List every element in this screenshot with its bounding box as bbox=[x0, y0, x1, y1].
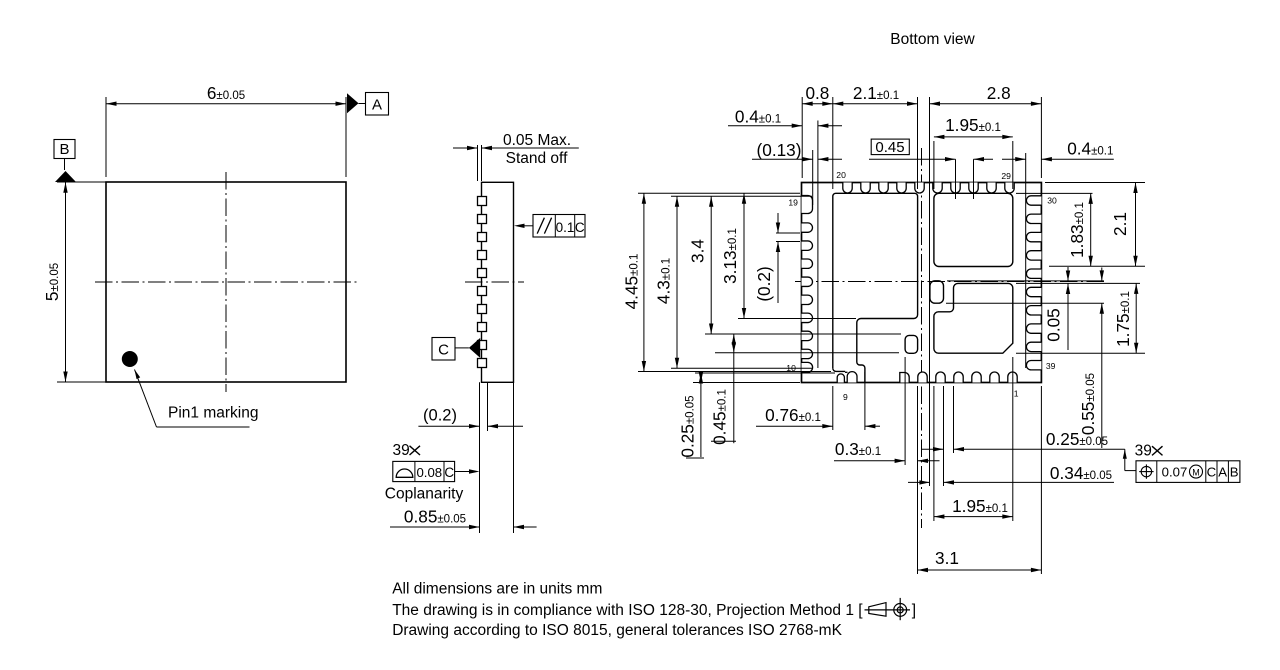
dimension 6±0.05 top view width bbox=[105, 97, 107, 177]
svg-text:29: 29 bbox=[1001, 171, 1011, 181]
dimension (0.2) lead width bbox=[776, 232, 800, 234]
dimension 2.1 right bbox=[1135, 183, 1137, 267]
right pin column pins 30-39 bbox=[1026, 196, 1041, 205]
dimension 3.1 bbox=[1040, 386, 1042, 574]
svg-text:39: 39 bbox=[1046, 361, 1056, 371]
small pad lower center bbox=[905, 335, 918, 353]
bottom pin row pins 7-1 bbox=[918, 372, 927, 382]
svg-text:3.4: 3.4 bbox=[687, 239, 707, 263]
svg-text:Stand off: Stand off bbox=[506, 150, 568, 167]
svg-text:0.1: 0.1 bbox=[556, 220, 575, 235]
top right exposed pad bbox=[934, 193, 1013, 266]
svg-text:0.05: 0.05 bbox=[1043, 308, 1063, 341]
pin1 marking leader and label bbox=[135, 370, 141, 380]
dimension 0.4±0.1 left pin length bbox=[728, 125, 802, 127]
dimension 0.76±0.1 bbox=[832, 386, 834, 430]
dimension 3.4 bbox=[705, 333, 901, 335]
bottom view package outline bbox=[802, 183, 1042, 383]
svg-text:2.8: 2.8 bbox=[987, 83, 1011, 103]
svg-text:2.1: 2.1 bbox=[1110, 212, 1130, 236]
datum A flag bbox=[347, 93, 359, 113]
side view centerline bbox=[465, 281, 524, 283]
svg-text:0.07: 0.07 bbox=[1162, 465, 1188, 480]
svg-text:The drawing is in compliance w: The drawing is in compliance with ISO 12… bbox=[392, 602, 863, 619]
svg-text:0.45: 0.45 bbox=[875, 139, 904, 156]
top view horizontal centerline bbox=[95, 281, 357, 283]
position tolerance frame 39x 0.07 M C A B bbox=[1123, 449, 1127, 459]
svg-text:39: 39 bbox=[1135, 442, 1152, 459]
dimension 0.3±0.1 bbox=[904, 357, 906, 465]
svg-text:20: 20 bbox=[836, 170, 846, 180]
dimension 3.13±0.1 bbox=[738, 318, 856, 320]
side view leads column bbox=[478, 197, 487, 206]
svg-text:C: C bbox=[438, 341, 449, 358]
svg-text:M: M bbox=[1192, 468, 1200, 478]
dimension 0.8 bbox=[801, 97, 803, 178]
bottom right exposed pad with chamfer bbox=[934, 283, 1013, 353]
dimension 0.4±0.1 right bbox=[1002, 158, 1026, 160]
svg-text:Pin1 marking: Pin1 marking bbox=[168, 405, 258, 422]
side view body outline bbox=[482, 182, 514, 382]
dimension 0.45 pitch boxed bbox=[871, 139, 909, 155]
svg-text:(0.2): (0.2) bbox=[423, 407, 457, 425]
dimension 0.25±0.05 right bbox=[943, 386, 945, 453]
svg-text:0.08: 0.08 bbox=[416, 465, 442, 480]
left pin column pins 19-10 bbox=[802, 196, 813, 214]
bottom view vertical centerline bbox=[921, 148, 923, 528]
dimension 0.25±0.05 left bbox=[695, 372, 835, 374]
svg-text:B: B bbox=[59, 141, 69, 158]
svg-text:3.1: 3.1 bbox=[935, 548, 959, 568]
top view package body outline bbox=[106, 182, 346, 382]
bottom pin 8 small bump bbox=[837, 374, 844, 383]
svg-text:A: A bbox=[1218, 465, 1227, 480]
dimension 4.45±0.1 bbox=[638, 192, 800, 194]
dimension 4.3±0.1 bbox=[671, 195, 812, 197]
parallelism feature control frame //|0.1|C bbox=[533, 215, 585, 238]
svg-text:30: 30 bbox=[1047, 196, 1057, 206]
bottom pin 7 squared corner bbox=[900, 373, 909, 383]
dimension 2.1±0.1 bbox=[917, 97, 919, 189]
svg-text:1: 1 bbox=[1014, 389, 1019, 399]
dimension 0.55±0.05 bbox=[946, 302, 1104, 304]
svg-text:Coplanarity: Coplanarity bbox=[385, 485, 464, 502]
svg-text:B: B bbox=[1230, 465, 1239, 480]
svg-text:0.8: 0.8 bbox=[805, 83, 829, 103]
svg-text:]: ] bbox=[912, 602, 916, 619]
dimension 2.8 bbox=[929, 97, 931, 486]
dimension 1.95±0.1 bottom bbox=[933, 386, 935, 521]
left pin tip line bbox=[817, 121, 819, 369]
dimension 0.05 Max stand off bbox=[477, 145, 479, 181]
small pad near center pin1 side bbox=[930, 281, 944, 303]
dimension 0.34±0.05 bbox=[908, 481, 930, 483]
side view extension lines below body bbox=[479, 382, 481, 533]
svg-text:A: A bbox=[372, 97, 382, 114]
dimension 0.05 bbox=[947, 280, 1104, 282]
svg-text:39: 39 bbox=[393, 442, 410, 459]
svg-text:Drawing according to ISO 8015,: Drawing according to ISO 8015, general t… bbox=[392, 622, 842, 639]
top pin row pins 20-29 bbox=[843, 183, 852, 194]
bottom pin 9 bbox=[847, 372, 857, 383]
svg-text:All dimensions are in units mm: All dimensions are in units mm bbox=[392, 580, 602, 597]
dimension 1.83±0.1 bbox=[1090, 193, 1092, 266]
svg-text:Bottom view: Bottom view bbox=[890, 31, 975, 48]
svg-text:C: C bbox=[444, 465, 454, 480]
dimension 0.45±0.1 left bbox=[715, 352, 899, 354]
bottom view horizontal centerline bbox=[795, 281, 1104, 283]
svg-text:0.05 Max.: 0.05 Max. bbox=[503, 132, 571, 149]
left exposed pad outline bbox=[833, 193, 918, 382]
dimension 5±0.05 top view height bbox=[57, 181, 106, 183]
dimension (0.13) bbox=[812, 150, 814, 205]
datum B flag bbox=[54, 140, 75, 159]
svg-text:C: C bbox=[1207, 465, 1217, 480]
svg-text:9: 9 bbox=[843, 392, 848, 402]
svg-text:C: C bbox=[575, 220, 585, 235]
svg-text:(0.2): (0.2) bbox=[754, 266, 774, 301]
pin1 marking dot bbox=[122, 351, 138, 367]
right side extension lines top bbox=[1045, 182, 1145, 184]
dimension 1.95±0.1 top bbox=[933, 141, 935, 189]
dimension 1.75±0.1 bbox=[1016, 352, 1145, 354]
svg-text:(0.13): (0.13) bbox=[757, 140, 802, 160]
dimension (0.2) lead protrusion bbox=[418, 425, 479, 427]
top view vertical centerline bbox=[225, 172, 227, 392]
datum C flag bbox=[432, 338, 455, 361]
svg-text:19: 19 bbox=[788, 197, 798, 207]
right pin tip line bbox=[1025, 153, 1027, 368]
